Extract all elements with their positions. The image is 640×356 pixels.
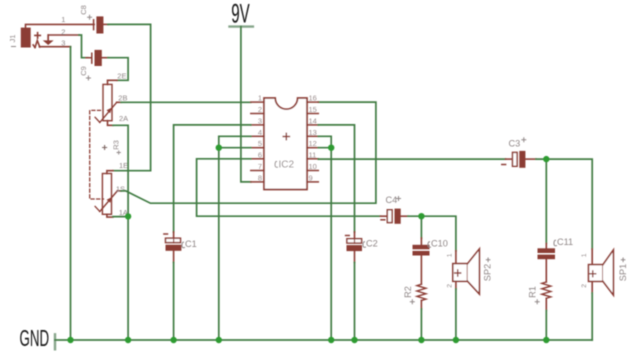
svg-text:C11: C11	[557, 237, 573, 247]
svg-text:C8: C8	[79, 5, 88, 15]
svg-text:1: 1	[258, 94, 262, 103]
svg-text:9V: 9V	[231, 0, 250, 29]
svg-text:SP2: SP2	[483, 264, 493, 281]
svg-text:SP1: SP1	[618, 264, 628, 281]
wire node 1A down to GND	[113, 216, 128, 340]
wire C8 to pot 1E	[108, 24, 151, 170]
svg-text:1E: 1E	[119, 161, 128, 170]
svg-text:10: 10	[309, 162, 317, 171]
IC op-amp IC2	[264, 98, 307, 190]
wire C4 node down to C10	[420, 216, 422, 238]
wire pot 1S to IC pin 16	[121, 102, 376, 203]
power flag 9V	[230, 0, 253, 29]
svg-text:GND: GND	[20, 325, 50, 351]
wire IC pin 5 node down to GND	[219, 148, 251, 340]
junction node C3 output	[543, 156, 549, 162]
wire IC pin 12 node down to GND	[318, 148, 331, 340]
junction GND bus at R2	[418, 337, 424, 343]
capacitor C4	[381, 195, 409, 224]
wire 9V supply to IC pin 8	[241, 27, 251, 182]
svg-text:15: 15	[309, 105, 317, 114]
svg-text:4: 4	[258, 128, 262, 137]
wire IC pin 4 to node	[219, 136, 251, 147]
svg-text:1S: 1S	[116, 184, 125, 193]
svg-text:2: 2	[258, 105, 262, 114]
IC2 pin stubs right	[307, 102, 318, 182]
wire jack pin2 to C9	[48, 35, 79, 41]
junction node pins 12-13	[328, 145, 334, 151]
svg-text:3: 3	[258, 116, 262, 125]
svg-text:C2: C2	[366, 239, 378, 249]
svg-text:7: 7	[258, 162, 262, 171]
R3 label	[103, 140, 121, 154]
wire pot 2A down to node 1A	[113, 125, 128, 216]
junction GND bus at pin12 drop	[328, 337, 334, 343]
potentiometer R3 section 1	[95, 171, 121, 217]
junction GND bus at C2	[351, 337, 357, 343]
junction GND bus at jack drop	[67, 337, 73, 343]
wire SP2 to GND	[455, 289, 457, 340]
R3 gang dashed coupling	[90, 110, 104, 199]
capacitor C2	[346, 232, 378, 262]
wire C1 to GND	[173, 262, 175, 340]
junction node pins 4-5	[216, 145, 222, 151]
IC2 pin numbers right 9-16	[309, 94, 317, 183]
svg-text:C3: C3	[509, 139, 521, 149]
capacitor C10	[413, 238, 448, 284]
junction GND bus at SP2	[453, 337, 459, 343]
svg-text:2E: 2E	[117, 71, 126, 80]
wire IC pin 13 to node	[318, 136, 331, 147]
svg-text:13: 13	[309, 128, 317, 137]
svg-text:2: 2	[581, 284, 588, 288]
svg-text:16: 16	[309, 94, 317, 103]
svg-text:C9: C9	[79, 66, 88, 76]
svg-text:1: 1	[61, 15, 65, 24]
svg-text:1: 1	[446, 253, 453, 257]
svg-text:14: 14	[309, 116, 317, 125]
svg-text:2A: 2A	[119, 114, 128, 123]
junction GND bus at R1	[543, 337, 549, 343]
svg-text:9: 9	[309, 173, 313, 182]
wire C2 to GND	[354, 262, 356, 340]
wire R2 to GND	[420, 309, 422, 340]
speaker SP2	[446, 249, 492, 294]
resistor R1	[528, 282, 551, 311]
svg-text:IC2: IC2	[279, 160, 295, 171]
wire IC pin 14 to C2	[318, 125, 354, 232]
wire GND bus	[55, 339, 592, 341]
wire C4 node to SP2	[408, 216, 456, 251]
junction GND bus at C1	[170, 337, 176, 343]
wire IC pin 3 to C1	[174, 125, 251, 232]
capacitor C11	[538, 237, 574, 282]
svg-text:6: 6	[258, 150, 262, 159]
svg-text:2: 2	[446, 284, 453, 288]
svg-text:11: 11	[309, 150, 317, 159]
svg-text:C4: C4	[386, 195, 398, 205]
svg-text:5: 5	[258, 139, 262, 148]
wire C3 node to SP1	[536, 159, 592, 249]
junction node pot 1A	[125, 213, 131, 219]
svg-text:8: 8	[258, 173, 262, 182]
resistor R2	[403, 284, 426, 309]
svg-text:C10: C10	[431, 239, 448, 249]
svg-text:R2: R2	[403, 286, 413, 298]
IC2 pin numbers left 1-8	[258, 94, 262, 183]
potentiometer R3 section 2	[95, 80, 121, 125]
junction GND bus at pin5 drop	[216, 337, 222, 343]
svg-text:2B: 2B	[118, 94, 127, 103]
svg-text:R1: R1	[528, 286, 538, 298]
wire IC pin 11 to C3	[318, 158, 505, 160]
svg-text:R3: R3	[112, 140, 121, 150]
connector J1	[22, 28, 52, 47]
svg-text:1: 1	[581, 253, 588, 257]
capacitor C1	[164, 232, 197, 262]
wire R1 to GND	[545, 311, 547, 341]
svg-text:C1: C1	[185, 239, 197, 249]
wire C3 node down to C11	[545, 159, 547, 243]
capacitor C8	[79, 5, 108, 33]
capacitor C3	[502, 138, 536, 168]
ground net label GND	[20, 325, 55, 351]
capacitor C9	[79, 50, 108, 80]
wire IC pin 6 to C4	[197, 159, 381, 216]
svg-text:3: 3	[61, 38, 65, 47]
wire jack pin3 down to GND bus	[39, 46, 70, 48]
svg-text:12: 12	[309, 139, 317, 148]
junction GND bus at pot drop	[125, 337, 131, 343]
IC2 pin stubs left	[251, 102, 264, 182]
wire pot 2B to IC pin 1	[121, 101, 251, 103]
junction node C4 output	[418, 213, 424, 219]
wire jack pin1 to C8	[26, 24, 95, 28]
wire C9 to pot 2E	[108, 58, 128, 81]
svg-text:J1: J1	[8, 35, 17, 43]
wire SP1 to GND	[591, 293, 593, 340]
speaker SP1	[581, 249, 628, 295]
svg-text:2: 2	[61, 27, 65, 36]
